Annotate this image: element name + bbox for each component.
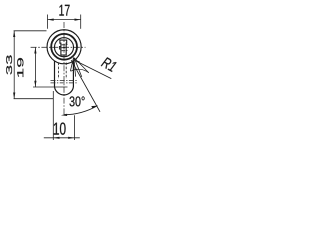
dimension 19: dimension line	[34, 47, 36, 87]
R1 leader line	[75, 61, 111, 79]
vertical centerline	[63, 22, 65, 115]
plug circle	[55, 38, 74, 57]
dimension 17: extension lines	[48, 15, 81, 29]
label 17	[59, 5, 69, 16]
dimension 17: arrows	[48, 19, 81, 21]
inner ring circle	[51, 34, 77, 60]
dimension 33: arrows	[13, 31, 15, 99]
label 10	[54, 123, 66, 135]
dimension 10: extension lines	[53, 91, 74, 140]
cam sector fan lines	[70, 57, 88, 77]
30 degree ray	[71, 60, 100, 112]
hidden keyway lines in stem	[59, 63, 67, 80]
dimension 19: extension line	[33, 86, 68, 88]
dimension 10: dimension line	[44, 137, 80, 139]
stem left edge	[54, 61, 56, 88]
dimension 19: arrows	[34, 47, 36, 87]
horizontal centerline	[31, 46, 86, 48]
R1 leader arrowhead	[75, 61, 80, 64]
dimension 17: dimension line	[48, 19, 81, 21]
label 30deg	[70, 96, 85, 106]
cylinder outer circle	[47, 30, 81, 64]
cam pivot dash-dot lines	[51, 81, 78, 83]
dimension 33: extension lines	[14, 31, 54, 99]
label R1	[101, 57, 117, 72]
dimension 10: arrows	[53, 137, 74, 139]
label 19	[17, 58, 23, 77]
stem bottom arc	[55, 87, 74, 95]
keyway	[59, 40, 67, 55]
label 33	[6, 55, 12, 74]
stem right edge	[72, 60, 74, 87]
dimension 33: dimension line	[13, 31, 15, 99]
30 degree arc with arrows	[64, 106, 98, 115]
